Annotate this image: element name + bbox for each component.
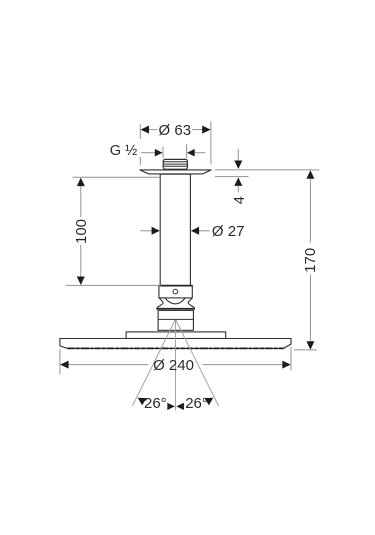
spray cone left line xyxy=(132,320,175,406)
spray cone center line xyxy=(175,320,177,411)
dim63 right arrow xyxy=(202,126,211,134)
svg-text:170: 170 xyxy=(302,248,319,273)
dim63 left arrow xyxy=(141,126,150,134)
svg-text:G ½: G ½ xyxy=(110,143,137,159)
svg-text:100: 100 xyxy=(73,219,90,244)
dim170 top arrow xyxy=(306,170,314,179)
dim4 upper leader and arrow xyxy=(237,149,239,161)
nut top shaded band xyxy=(156,308,194,310)
dim170 line xyxy=(309,179,311,243)
dim170 bottom arrow xyxy=(306,341,314,350)
pipe xyxy=(160,174,190,285)
angle left outer arrow xyxy=(138,398,147,406)
dim240 left arrow xyxy=(60,361,69,369)
dim4 datum top line xyxy=(215,169,320,171)
dim240 left extension xyxy=(59,349,61,374)
svg-text:26°: 26° xyxy=(185,395,208,412)
angle center left-pointing arrow xyxy=(176,403,184,410)
dim63 left extension line xyxy=(139,124,141,139)
G half right leader xyxy=(195,152,206,154)
G half left leader xyxy=(141,152,156,154)
spray nozzle dotted face xyxy=(68,347,284,349)
collar xyxy=(159,286,192,298)
dim63 line xyxy=(149,129,158,131)
pivot screw circle xyxy=(173,289,178,294)
svg-text:4: 4 xyxy=(232,196,248,204)
dim100 top datum xyxy=(73,176,160,178)
nut divider line xyxy=(158,318,193,320)
dim27 right leader xyxy=(199,230,210,232)
angle right outer arrow xyxy=(204,398,213,406)
svg-text:Ø 63: Ø 63 xyxy=(159,122,192,139)
G half right extension xyxy=(186,144,188,158)
dim100 line xyxy=(80,186,82,217)
dim170 bottom datum xyxy=(294,349,317,351)
svg-text:Ø 27: Ø 27 xyxy=(212,223,245,240)
dim4 lower arrow and leader xyxy=(234,177,242,186)
dim27 left leader xyxy=(140,230,152,232)
dim240 right extension xyxy=(290,347,292,371)
dim4 datum bottom line xyxy=(215,176,249,178)
svg-text:Ø 240: Ø 240 xyxy=(153,357,194,374)
dim100 top arrow xyxy=(77,178,85,187)
thread nipple G1/2 xyxy=(163,159,187,169)
dim100 bottom datum xyxy=(66,284,161,286)
spray cone right line xyxy=(176,320,219,406)
step plate xyxy=(126,332,226,339)
svg-text:26°: 26° xyxy=(144,395,167,412)
dim240 line xyxy=(69,364,148,366)
G half left extension xyxy=(162,147,164,159)
angle center right-pointing arrow xyxy=(167,403,175,410)
dim100 bottom arrow xyxy=(77,277,85,286)
ball joint xyxy=(157,298,195,308)
nut body xyxy=(158,310,193,330)
flange escutcheon xyxy=(140,170,212,174)
shower head disc xyxy=(60,339,291,349)
dim63 right extension line xyxy=(210,121,212,164)
dim240 right arrow xyxy=(282,361,291,369)
